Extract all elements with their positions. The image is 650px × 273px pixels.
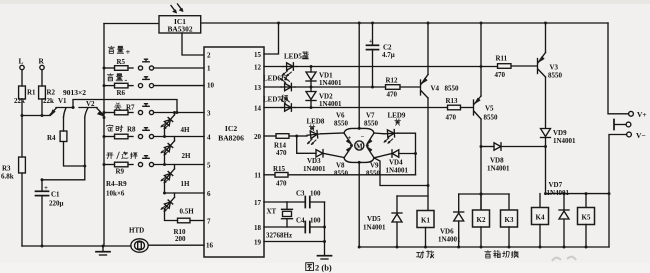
svg-text:10: 10 [207,82,215,90]
svg-text:K2: K2 [477,216,486,224]
label LED7 green [263,95,288,104]
svg-text:11: 11 [254,172,261,180]
wire: pin 15 up to supply rail [264,22,280,55]
pushbutton: on/select key [138,156,204,167]
svg-text:K3: K3 [505,216,514,224]
svg-text:V6: V6 [336,112,345,120]
resistor R2 22k [39,86,56,105]
svg-text:R5: R5 [117,58,126,66]
LED 2H indicator [161,137,191,167]
diode VD1 1N4001 [306,67,342,89]
LED5 on pin 12 row [264,63,297,76]
svg-text:3: 3 [207,110,211,118]
svg-text:+: + [348,135,352,142]
svg-text:R6: R6 [117,89,126,97]
input terminal L [19,57,25,70]
LED6 on pin 13 row [264,77,295,90]
svg-text:LED7: LED7 [263,96,281,104]
svg-text:17: 17 [254,199,262,207]
transistor V1 9013 [50,97,74,117]
svg-text:VD9: VD9 [553,129,567,137]
wire: R4 bottom to emitter node [64,142,85,167]
svg-text:R4: R4 [47,134,56,142]
svg-text:V5: V5 [485,105,494,113]
ground symbol left [96,246,110,255]
wire: V2 base to key rail [103,116,106,119]
svg-text:+: + [369,38,373,45]
terminal V+ [629,110,647,119]
svg-text:R13: R13 [446,97,459,105]
label R4-R9 10k x6 [106,180,127,198]
svg-text:1N4001: 1N4001 [319,100,342,108]
LED 0.5H indicator [161,193,194,221]
svg-text:VD3: VD3 [307,157,321,165]
wire: V5 collector down to K2 [480,119,483,210]
svg-text:19: 19 [254,239,262,247]
pushbutton: volume up key [138,59,204,70]
svg-text:470: 470 [495,71,506,79]
svg-text:VD7: VD7 [549,181,563,189]
svg-text:200: 200 [175,235,186,243]
svg-text:LED8: LED8 [307,118,325,126]
LED 4H indicator [161,113,190,139]
IC2 left pin numbers [206,52,215,250]
label 音量+ (volume up) [108,46,130,57]
svg-text:10k×6: 10k×6 [106,190,125,198]
pushbutton: volume down key [138,77,204,88]
label 9013x2 [63,88,86,97]
wire: pin 19 row [264,240,326,243]
wire: R1 to base junction [21,99,23,116]
svg-text:VD5: VD5 [367,215,381,223]
svg-text:HTD: HTD [129,227,144,235]
svg-text:R4–R9: R4–R9 [106,180,127,188]
resistor R7 [103,110,134,115]
svg-text:8550: 8550 [548,72,563,80]
LED8 [297,130,344,145]
watermark smudge [552,257,576,261]
label 音量- (volume down) [107,74,127,85]
LED9 [374,129,417,174]
svg-text:13: 13 [254,84,262,92]
svg-text:2H: 2H [182,152,192,160]
wire: bottom-left ground rail [22,245,131,248]
svg-text:8550: 8550 [366,170,381,178]
svg-text:V8: V8 [336,162,345,170]
svg-text:VD4: VD4 [389,159,403,167]
svg-text:LED5: LED5 [284,53,302,61]
label 功放 (power amp) [416,251,434,258]
IC1 BA5302 infrared receiver [159,16,201,34]
input terminal R [39,57,45,70]
svg-text:470: 470 [446,114,457,122]
resistor R3 6.8k [1,116,25,247]
ground symbol middle [318,202,332,259]
label 开/选择 (on/select) [107,152,138,159]
svg-text:1N4001: 1N4001 [438,236,461,244]
svg-text:K4: K4 [536,214,545,222]
wire: V- down to ground rail [608,135,627,248]
diode VD7 1N4001 [547,181,570,249]
svg-text:K1: K1 [421,217,430,225]
label LED5 blue [284,52,309,61]
svg-text:8550: 8550 [334,170,349,178]
IC2 BA8206 main chip [204,47,264,257]
svg-text:C3: C3 [296,190,305,198]
diode VD9 1N4001 [541,129,577,194]
svg-text:L: L [19,57,24,66]
diode VD2 1N4001 [306,87,342,109]
svg-text:9013×2: 9013×2 [63,88,86,97]
svg-text:1N4001: 1N4001 [363,224,386,232]
svg-text:8550: 8550 [364,120,379,128]
label V8 8550 [334,162,349,178]
relay K2 [473,194,490,249]
wire: V3 collector to VD9 [545,77,547,128]
svg-text:22k: 22k [43,97,54,105]
svg-text:R11: R11 [496,55,508,63]
transistor V4 8550 [421,75,460,99]
svg-text:R15: R15 [273,165,286,173]
svg-text:V3: V3 [550,64,559,72]
svg-text:16: 16 [206,242,214,250]
wire: V+ feed from rail [608,23,629,114]
LED7 on pin 14 row [264,98,295,111]
motor drive bridge V6 V7 V8 V9 [344,127,374,164]
svg-text:VD8: VD8 [490,157,504,165]
resistor R8 [103,134,134,139]
svg-text:15: 15 [254,51,262,59]
buzzer HTD [129,227,148,253]
svg-text:R9: R9 [116,168,125,176]
svg-text:8550: 8550 [334,120,349,128]
svg-text:18: 18 [254,224,262,232]
svg-text:470: 470 [387,91,398,99]
svg-text:V1: V1 [58,97,67,105]
svg-text:R2: R2 [47,89,56,97]
diode VD6 1N4001 [438,194,464,249]
svg-text:0.5H: 0.5H [180,208,195,216]
svg-text:4H: 4H [181,126,191,134]
svg-text:2: 2 [207,52,211,60]
svg-text:K5: K5 [582,214,591,222]
svg-text:470: 470 [276,180,287,188]
svg-text:5: 5 [207,162,211,170]
relay K4 [532,194,549,249]
svg-text:V+: V+ [637,110,647,119]
wire: K4/K5 coil bar to V- [544,192,609,195]
crystal XT 32768Hz [264,202,293,240]
svg-text:R3: R3 [2,165,11,173]
wire: pin 12 row to R11 [297,65,498,68]
svg-text:20: 20 [254,133,262,141]
label LED8 yellow [307,118,325,132]
wire: bridge bottom to ground rail [358,162,361,248]
wire: L input line [21,70,23,86]
svg-text:14: 14 [254,105,262,113]
wire: pin 14 row to R13 [295,107,448,109]
label 音箱切换 (speaker switch) [485,251,519,258]
wire: V3 emitter to rail [544,22,547,53]
svg-text:C4: C4 [296,217,305,225]
svg-text:BA8206: BA8206 [218,134,244,143]
svg-text:XT: XT [267,208,277,216]
capacitor C1 220u electrolytic [36,180,64,246]
svg-text:1N4001: 1N4001 [487,165,510,173]
svg-text:V−: V− [636,131,646,140]
resistor R9 [103,162,134,175]
resistor R12 470 [386,77,420,99]
wire: bridge top to supply rail [358,22,361,129]
IC2 right pin numbers [254,51,262,247]
pushbutton: off key [138,104,204,115]
wire: V5 emitter to rail [480,22,483,97]
wire: V4 emitter to rail [427,22,430,75]
diode VD3 1N4001 [297,136,344,173]
relay K3 [501,194,518,249]
resistor R14 470 on pin 20 row [264,134,298,157]
svg-text:V2: V2 [86,100,95,108]
svg-text:12: 12 [254,64,262,72]
resistor R6 [103,83,134,97]
label LED6 red [263,74,288,83]
wire: V1 emitter to R4 [63,117,65,131]
resistor R13 470 [446,97,473,122]
svg-text:1N4001: 1N4001 [303,165,326,173]
wire: bottom ground rail right section [359,246,609,248]
wire: V9 collector to K1 line [374,158,428,186]
svg-text:8550: 8550 [484,114,499,122]
svg-text:6.8k: 6.8k [1,173,14,181]
wire: V2 emitter down to C1 node [41,117,87,181]
wire: R input line [41,70,43,86]
svg-text:22k: 22k [14,97,25,105]
svg-text:VD6: VD6 [440,228,454,236]
label V6 8550 [334,112,349,128]
label V7 8550 [364,112,379,128]
wire: top V+ supply rail [201,22,608,24]
svg-text:6: 6 [207,190,211,198]
svg-text:V9: V9 [370,162,379,170]
svg-text:C1: C1 [51,191,60,199]
label 定时 R8 (timer key) [107,125,136,134]
label V9 8550 [366,162,381,178]
svg-text:R1: R1 [27,89,36,97]
resistor R10 200 [174,218,205,243]
svg-text:470: 470 [276,149,287,157]
svg-text:8550: 8550 [445,85,460,93]
svg-text:1H: 1H [181,180,191,188]
svg-text:LED6: LED6 [263,75,281,83]
svg-text:V7: V7 [366,112,375,120]
svg-text:1N4001: 1N4001 [553,137,576,145]
terminal V- [627,131,646,140]
wire: V4 collector down to K1 [427,98,430,211]
svg-text:V4: V4 [431,85,440,93]
relay K1 [417,211,434,249]
label LED9 yellow [388,112,406,126]
pushbutton: timer key [138,128,204,139]
svg-text:1: 1 [207,65,211,73]
svg-text:100: 100 [310,217,321,225]
capacitor C3 100 [287,190,325,208]
svg-text:M: M [356,143,363,150]
wire: R2 to base junction [41,99,43,116]
svg-text:−: − [361,134,365,141]
motor M [355,141,364,151]
resistor R4 [47,131,67,142]
wire: V1/V2 collectors tie to pin 3 line [72,100,178,113]
svg-text:100: 100 [310,190,321,198]
svg-text:IC2: IC2 [225,124,237,133]
transistor V2 9013 [79,100,104,117]
wire: pin 6 row [165,192,205,194]
wire: K2/K3 coil bar [459,193,509,196]
wire: pin 13 row to R12 [295,86,386,89]
svg-text:7: 7 [207,218,211,226]
svg-text:+: + [126,47,131,57]
svg-text:R: R [39,57,45,66]
svg-text:R12: R12 [386,77,399,85]
svg-text:R8: R8 [127,126,136,134]
resistor R15 470 on pin 11 row [264,165,416,188]
relay K5 [578,194,595,249]
svg-text:BA5302: BA5302 [167,25,192,34]
svg-text:1N4001: 1N4001 [386,167,409,175]
svg-text:1N4001: 1N4001 [547,189,570,197]
resistor R1 22k [14,86,36,105]
svg-text:32768Hz: 32768Hz [266,232,292,240]
svg-text:2 (b): 2 (b) [315,263,332,273]
power switch [614,120,631,130]
svg-text:1N4001: 1N4001 [319,79,342,87]
diode VD8 1N4001 [481,143,547,173]
resistor R11 470 [495,55,537,80]
wire: base junction to V1 [21,114,51,117]
capacitor C4 100 [264,217,326,233]
wire: IC1 output to IC2 pin 2 [182,33,204,55]
wire: pin 16 to buzzer [148,244,204,246]
wire: IC1 left lead to key rail [104,23,159,25]
transistor V3 8550 [538,53,563,80]
wire: key common rail (left vertical) [103,24,105,247]
resistor R5 [103,58,134,70]
diode VD5 1N4001 [363,196,428,249]
svg-text:+: + [44,184,48,192]
diode VD4 1N4001 [374,150,416,175]
caption 图2(b) [306,263,332,273]
label 关 R7 (off key) [115,103,135,112]
svg-text:220μ: 220μ [49,200,64,208]
svg-text:LED9: LED9 [388,112,406,120]
svg-text:4: 4 [207,134,211,142]
transistor V5 8550 [474,96,499,122]
capacitor C2 4.7u [367,22,395,88]
IR rays into IC1 [171,4,183,13]
LED 1H indicator [161,165,190,195]
svg-text:4.7μ: 4.7μ [382,51,395,59]
